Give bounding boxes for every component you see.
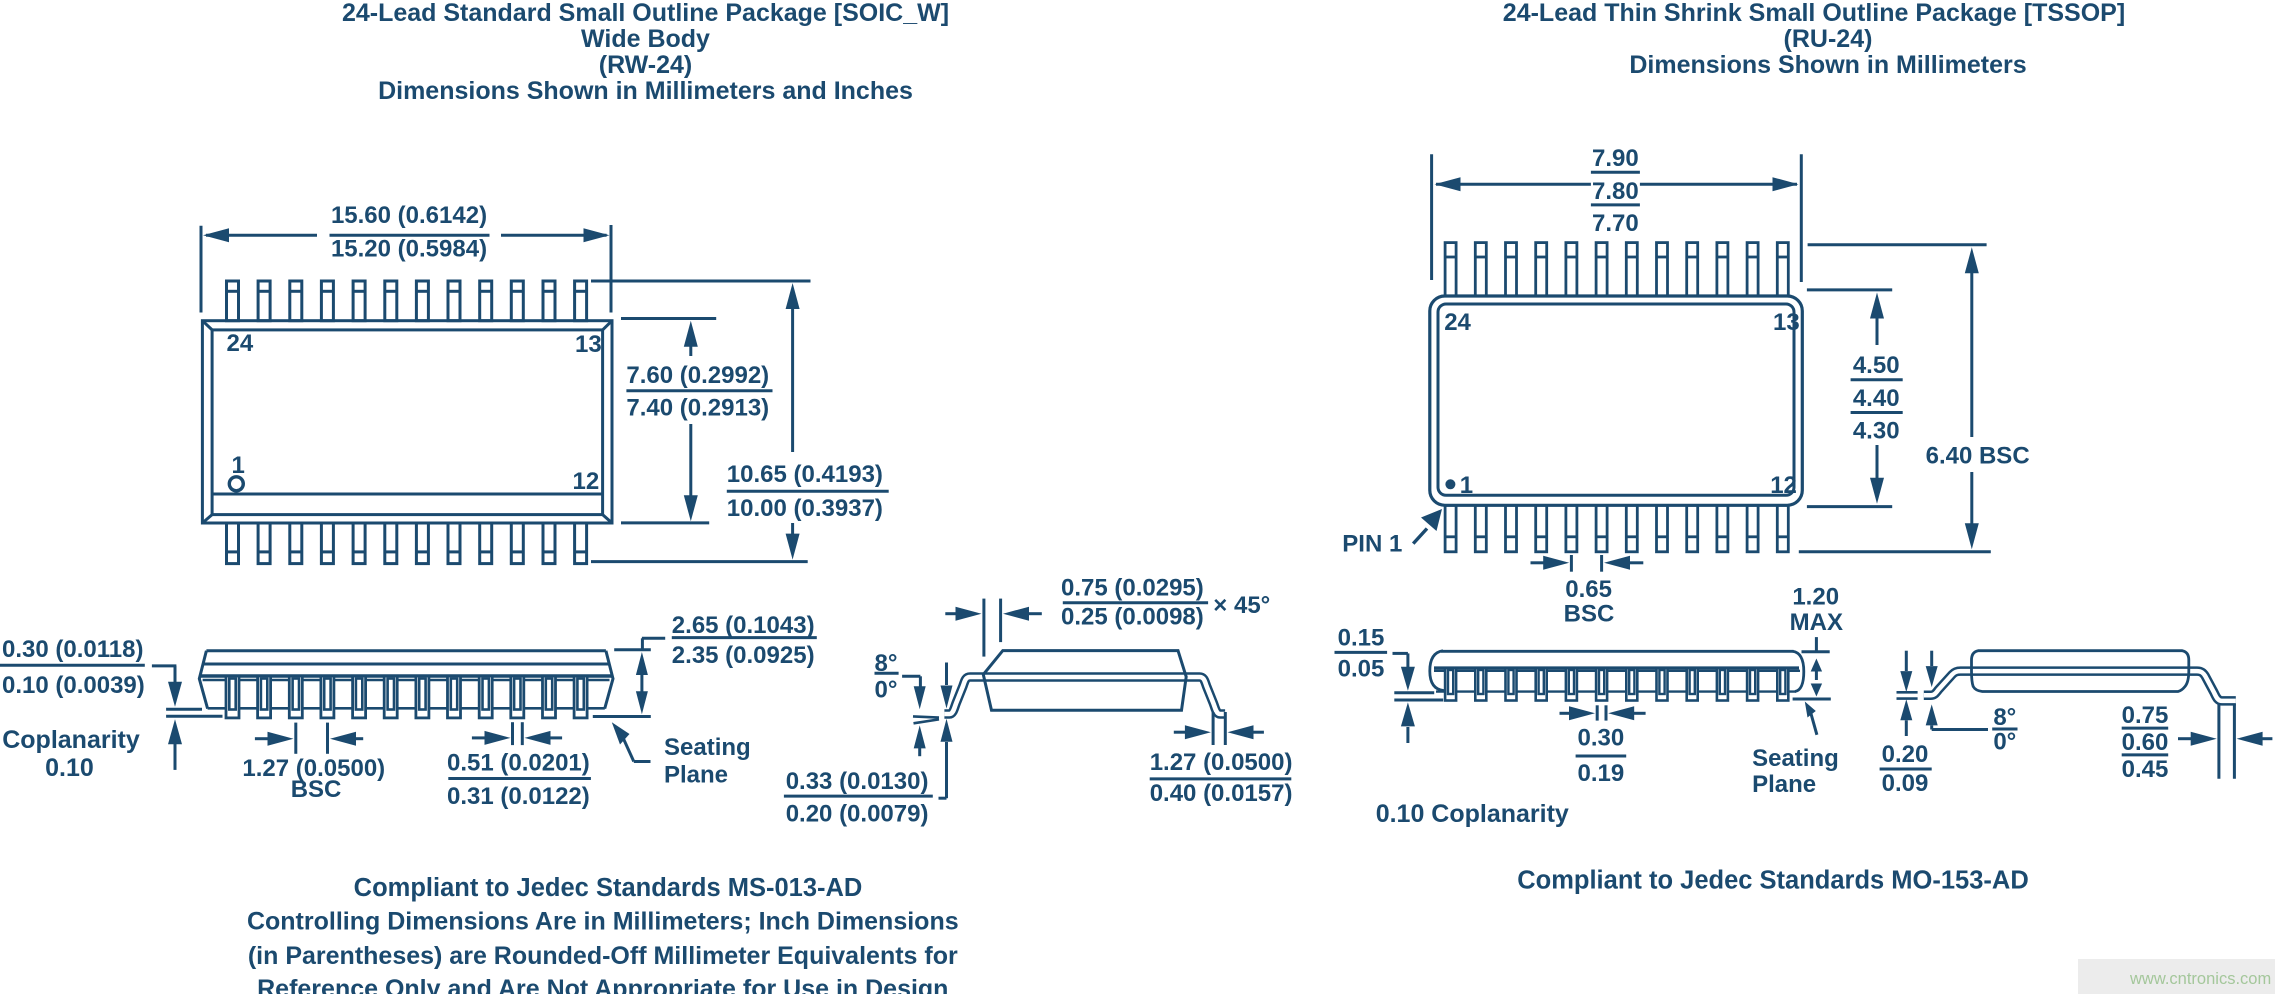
svg-text:4.40: 4.40 — [1853, 385, 1900, 412]
svg-text:PIN 1: PIN 1 — [1342, 530, 1402, 557]
svg-text:0.25 (0.0098): 0.25 (0.0098) — [1061, 604, 1204, 631]
svg-text:Wide Body: Wide Body — [581, 25, 710, 53]
SOIC pin number labels — [227, 330, 602, 495]
svg-text:Seating: Seating — [1752, 745, 1839, 772]
svg-text:Compliant to Jedec Standards M: Compliant to Jedec Standards MO-153-AD — [1517, 867, 2029, 895]
svg-text:0.40 (0.0157): 0.40 (0.0157) — [1150, 780, 1293, 807]
svg-text:7.90: 7.90 — [1592, 145, 1639, 172]
svg-text:0.60: 0.60 — [2122, 729, 2169, 756]
title TSSOP package heading — [1503, 0, 2125, 79]
svg-text:8°: 8° — [1993, 704, 2016, 731]
svg-text:www.cntronics.com: www.cntronics.com — [2129, 970, 2271, 988]
SOIC side view leads — [226, 676, 239, 718]
SOIC side view body — [206, 649, 606, 652]
svg-text:0.30: 0.30 — [1578, 725, 1625, 752]
svg-text:6.40 BSC: 6.40 BSC — [1926, 443, 2030, 470]
svg-text:Reference Only and Are Not App: Reference Only and Are Not Appropriate f… — [257, 975, 948, 994]
chamfer dimension 0.75 x 45 — [982, 599, 985, 657]
svg-text:0.10 (0.0039): 0.10 (0.0039) — [2, 672, 145, 699]
SOIC body width dimension 7.60/7.40 — [621, 317, 716, 320]
svg-text:0.10: 0.10 — [45, 754, 94, 782]
svg-text:13: 13 — [1773, 309, 1800, 336]
SOIC pin 1 index circle — [229, 477, 243, 491]
svg-text:Dimensions Shown in Millimeter: Dimensions Shown in Millimeters — [1629, 51, 2026, 79]
lead angle 8/0 (TSSOP) — [1992, 704, 2017, 756]
svg-text:0.15: 0.15 — [1338, 625, 1385, 652]
svg-text:BSC: BSC — [1564, 601, 1615, 628]
svg-text:Controlling Dimensions Are in: Controlling Dimensions Are in Millimeter… — [247, 908, 959, 936]
Seating Plane label (TSSOP) — [1805, 702, 1816, 718]
SOIC top view body outline — [202, 321, 612, 523]
TSSOP pin 1 dot — [1445, 479, 1455, 489]
svg-text:0°: 0° — [1993, 729, 2016, 756]
svg-text:0.10 Coplanarity: 0.10 Coplanarity — [1376, 800, 1569, 828]
TSSOP body length dimension 4.50/4.40/4.30 — [1807, 288, 1892, 291]
SOIC cross-section leads — [944, 677, 1225, 714]
SOIC standoff dimension 0.30/0.10 — [0, 636, 145, 699]
TSSOP side view body — [1441, 650, 1794, 653]
svg-text:24: 24 — [1444, 309, 1471, 336]
TSSOP lead width dimension 0.30/0.19 — [1596, 705, 1599, 720]
SOIC top view leads top row — [227, 281, 239, 321]
watermark — [2078, 959, 2275, 994]
lead angle 8/0 (SOIC) — [875, 650, 899, 704]
SOIC height dimension 2.65/2.35 — [672, 612, 817, 669]
TSSOP pin number labels — [1444, 309, 1800, 499]
svg-text:(in Parentheses) are Rounded-O: (in Parentheses) are Rounded-Off Millime… — [248, 942, 958, 970]
svg-text:10.65 (0.4193): 10.65 (0.4193) — [727, 461, 883, 488]
SOIC lead-span dimension 10.65/10.00 — [591, 280, 811, 283]
svg-text:1: 1 — [232, 452, 245, 479]
svg-text:(RU-24): (RU-24) — [1784, 25, 1873, 53]
svg-text:15.20 (0.5984): 15.20 (0.5984) — [331, 236, 487, 263]
svg-text:15.60 (0.6142): 15.60 (0.6142) — [331, 202, 487, 229]
svg-text:MAX: MAX — [1790, 609, 1843, 636]
svg-text:Compliant to Jedec Standards M: Compliant to Jedec Standards MS-013-AD — [354, 874, 863, 902]
svg-text:0.51 (0.0201): 0.51 (0.0201) — [447, 750, 590, 777]
svg-text:0.75: 0.75 — [2122, 702, 2169, 729]
TSSOP width dimension 7.90/7.80/7.70 — [1430, 154, 1433, 280]
svg-text:4.50: 4.50 — [1853, 352, 1900, 379]
title SOIC_W package heading — [342, 0, 949, 105]
SOIC top view leads bottom row — [227, 523, 239, 564]
svg-text:0.33 (0.0130): 0.33 (0.0130) — [786, 768, 929, 795]
svg-text:0.30 (0.0118): 0.30 (0.0118) — [2, 636, 143, 663]
svg-text:Seating: Seating — [664, 734, 751, 761]
SOIC width dimension 15.60/15.20 — [200, 226, 203, 313]
svg-text:7.60 (0.2992): 7.60 (0.2992) — [626, 362, 769, 389]
svg-text:4.30: 4.30 — [1853, 418, 1900, 445]
svg-text:Plane: Plane — [1752, 771, 1816, 798]
svg-text:12: 12 — [573, 468, 600, 495]
svg-text:24-Lead Thin Shrink Small Outl: 24-Lead Thin Shrink Small Outline Packag… — [1503, 0, 2125, 27]
TSSOP end view body — [1972, 651, 2189, 692]
svg-text:0.09: 0.09 — [1882, 770, 1929, 797]
svg-text:7.40 (0.2913): 7.40 (0.2913) — [626, 395, 769, 422]
svg-text:7.70: 7.70 — [1592, 210, 1639, 237]
svg-text:× 45°: × 45° — [1213, 592, 1270, 619]
compliance note SOIC — [247, 874, 959, 994]
svg-text:0.75 (0.0295): 0.75 (0.0295) — [1061, 575, 1204, 602]
svg-text:0.31 (0.0122): 0.31 (0.0122) — [447, 783, 590, 810]
svg-text:24: 24 — [227, 330, 254, 357]
TSSOP end view leads — [1924, 671, 2236, 701]
svg-text:2.35 (0.0925): 2.35 (0.0925) — [672, 642, 815, 669]
TSSOP pitch dimension 0.65 BSC — [1570, 555, 1573, 572]
TSSOP side view leads — [1445, 668, 1456, 701]
svg-text:10.00 (0.3937): 10.00 (0.3937) — [727, 495, 883, 522]
svg-text:1: 1 — [1460, 472, 1473, 499]
TSSOP top view body outline — [1430, 296, 1803, 505]
svg-text:Coplanarity: Coplanarity — [2, 726, 140, 754]
svg-text:1.27 (0.0500): 1.27 (0.0500) — [1150, 749, 1293, 776]
SOIC pitch dimension 1.27 BSC — [294, 723, 297, 754]
lead thickness 0.33/0.20 — [945, 663, 948, 686]
SOIC inner bottom line — [212, 493, 602, 496]
TSSOP lead-span dimension 6.40 BSC — [1808, 243, 1987, 246]
svg-text:13: 13 — [575, 331, 602, 358]
TSSOP standoff dimension 0.15/0.05 — [1335, 625, 1388, 683]
svg-text:0.65: 0.65 — [1565, 576, 1612, 603]
svg-text:7.80: 7.80 — [1592, 178, 1639, 205]
TSSOP top view leads top row — [1445, 243, 1456, 297]
svg-text:Plane: Plane — [664, 762, 728, 789]
svg-text:0.45: 0.45 — [2122, 756, 2169, 783]
TSSOP top view leads bottom row — [1445, 505, 1456, 552]
foot length 1.27/0.40 — [1212, 712, 1215, 745]
Seating Plane label (SOIC) — [612, 722, 630, 744]
svg-text:(RW-24): (RW-24) — [599, 51, 692, 79]
SOIC coplanarity datum lines — [166, 708, 202, 711]
TSSOP height dimension 1.20 MAX — [1790, 584, 1843, 637]
svg-text:12: 12 — [1770, 472, 1797, 499]
SOIC seating plane line — [593, 715, 651, 718]
Coplanarity label — [2, 726, 140, 782]
svg-text:1.20: 1.20 — [1792, 584, 1839, 611]
svg-text:2.65 (0.1043): 2.65 (0.1043) — [672, 612, 815, 639]
SOIC cross-section body — [983, 651, 1186, 711]
TSSOP foot length 0.75/0.60/0.45 — [2217, 704, 2220, 779]
svg-text:Dimensions Shown in Millimeter: Dimensions Shown in Millimeters and Inch… — [378, 77, 913, 105]
svg-text:24-Lead Standard Small Outline: 24-Lead Standard Small Outline Package [… — [342, 0, 949, 27]
svg-text:BSC: BSC — [291, 776, 342, 803]
svg-text:0.20: 0.20 — [1882, 741, 1929, 768]
svg-text:0.05: 0.05 — [1338, 656, 1385, 683]
SOIC lead width dimension 0.51/0.31 — [511, 722, 514, 745]
TSSOP lead thickness 0.20/0.09 — [1905, 651, 1908, 671]
svg-text:0.19: 0.19 — [1578, 760, 1625, 787]
svg-text:0.20 (0.0079): 0.20 (0.0079) — [786, 801, 929, 828]
TSSOP seating tick — [1793, 698, 1831, 701]
svg-text:0°: 0° — [875, 677, 898, 704]
